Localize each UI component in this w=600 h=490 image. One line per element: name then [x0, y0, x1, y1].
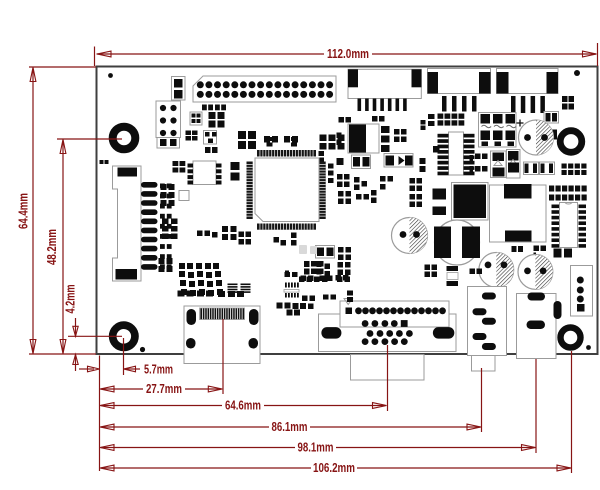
capacitor C8 (2x2) [394, 129, 400, 135]
svg-text:106.2mm: 106.2mm [313, 461, 355, 475]
resistor R27 [274, 237, 280, 243]
LVDS connector CN5 pins [141, 182, 158, 188]
capacitor C14 [159, 258, 165, 264]
pad cluster B [354, 177, 360, 183]
capacitor C20 electrolytic [392, 218, 428, 254]
capacitor C6 [267, 137, 273, 141]
resistor R26 [428, 114, 435, 119]
AV jack CN8 [468, 287, 507, 356]
dimension 64.6mm [101, 405, 222, 407]
transistor Q1 [204, 131, 217, 145]
resistor pack RN1 (2x2 pads) [562, 96, 568, 102]
pad row H [322, 277, 328, 283]
svg-text:86.1mm: 86.1mm [272, 420, 308, 434]
svg-text:27.7mm: 27.7mm [146, 382, 182, 396]
fiducial dot top-right [574, 70, 580, 76]
IC U6 pads [304, 261, 310, 267]
jumper block JP1 [479, 113, 517, 148]
IC U5 [348, 124, 379, 153]
resistor R20 [337, 158, 344, 165]
capacitor C10 [239, 232, 245, 238]
resistor R11 [215, 105, 220, 111]
resistor R17 [372, 116, 378, 122]
capacitor C15 electrolytic [519, 120, 554, 155]
capacitor C18 [433, 189, 447, 200]
pad pair P [512, 246, 517, 252]
capacitor C17 [540, 162, 555, 175]
dimension 48.2mm [57, 138, 122, 140]
IC U7 SOIC-14 [449, 132, 464, 175]
diode D2 [491, 151, 507, 178]
svg-text:4.2mm: 4.2mm [64, 285, 78, 314]
pad J [287, 310, 293, 316]
pin header J1 2x16 [193, 76, 336, 102]
pad pair N [475, 154, 481, 160]
dimension 64.4mm [29, 66, 96, 68]
resistor array R18 [381, 126, 390, 133]
resistor R23 [420, 158, 426, 164]
inductor L1 [435, 220, 480, 265]
pad column right of U1 [328, 164, 334, 169]
pad pair O [470, 155, 474, 163]
U1 top pins [257, 150, 316, 157]
capacitor C11 [316, 246, 335, 259]
connector CN4 [497, 69, 559, 94]
extension line hole BL [123, 338, 125, 375]
pad quad R [554, 249, 562, 258]
U1 right pins [320, 162, 326, 220]
audio jack CN9 [517, 294, 557, 359]
extension line audio [535, 359, 537, 453]
watermark [299, 245, 317, 254]
resistor group R22 [410, 194, 416, 200]
mounting hole bottom-left [113, 325, 135, 347]
resistor R10 [202, 105, 207, 111]
pad pair V1 [302, 296, 308, 302]
pin header J2 2x3 [156, 101, 181, 138]
resistor group R15 [161, 184, 167, 190]
capacitor C9 (2x2) [352, 155, 371, 169]
extension line AV [481, 368, 483, 432]
svg-text:64.4mm: 64.4mm [17, 193, 31, 229]
extension line power [571, 351, 573, 473]
capacitor C19 [433, 207, 447, 216]
component U3 (2x2 checker) [209, 112, 216, 119]
dimension 86.1mm [101, 426, 269, 428]
IC U9 power [452, 183, 489, 221]
U1 bottom pins [257, 224, 316, 230]
pad cluster E [380, 176, 386, 182]
resistor pack RN2 [562, 164, 567, 169]
capacitor C22 electrolytic [518, 255, 553, 290]
resistor group R33 [162, 219, 169, 225]
regulator U10 [490, 185, 547, 242]
component T1 [447, 266, 459, 271]
PCB board outline [97, 67, 598, 355]
fiducial dot near bottom-right hole [586, 345, 591, 350]
HDMI connector CN6 [184, 306, 260, 364]
plus mark [517, 120, 524, 127]
pad cluster D [356, 194, 362, 200]
pad pair T2 [470, 269, 476, 275]
op-amp U4 SOIC-8 [193, 161, 216, 185]
pad col U [100, 160, 104, 164]
pad quad Q [534, 246, 540, 252]
capacitor C1 (vertical 2-pad) [172, 77, 186, 101]
pad row above HDMI [178, 291, 185, 297]
pad matrix cluster [179, 263, 185, 269]
silk triangle [344, 299, 353, 305]
capacitor cluster C4 [320, 135, 327, 142]
pad row L [285, 272, 291, 277]
IC U6 [304, 261, 322, 267]
svg-text:5.7mm: 5.7mm [144, 362, 173, 376]
svg-text:98.1mm: 98.1mm [298, 441, 334, 455]
striped component S2 [285, 283, 287, 288]
extension line HDMI [222, 319, 224, 394]
main IC U1 QFP body [255, 158, 319, 222]
capacitor C16 [524, 162, 539, 175]
pad P1 [179, 191, 189, 201]
component U2 (4-pad) [190, 112, 202, 125]
dimension 112.0mm [94, 47, 96, 67]
resistor column R1-R9 [160, 184, 165, 189]
connector CN2 [348, 69, 421, 98]
resistor row R30 [438, 114, 444, 119]
resistor R16 [339, 117, 345, 123]
connector CN10 [571, 266, 593, 317]
capacitor C23 [173, 161, 179, 166]
svg-text:64.6mm: 64.6mm [225, 399, 261, 413]
pad cluster C [338, 191, 344, 197]
resistor R13 [264, 136, 270, 143]
pad row R34 [197, 231, 203, 237]
svg-text:112.0mm: 112.0mm [327, 47, 369, 61]
capacitor C3 (2x2 big) [238, 131, 246, 139]
mounting hole bottom-right [561, 328, 581, 348]
connector CN3 [428, 69, 491, 94]
dimension 98.1mm [101, 447, 295, 449]
dimension 27.7mm [101, 388, 143, 390]
pad V3 [347, 291, 353, 296]
dimension 106.2mm [101, 467, 311, 469]
diode D1 [384, 154, 413, 168]
pad row G [299, 277, 305, 283]
dimension 5.7mm [79, 368, 94, 370]
U1 left pins [247, 162, 253, 220]
IC U8 SOIC-16 [560, 203, 578, 248]
pad cluster A [337, 174, 343, 180]
resistor pack RN3 [549, 186, 554, 192]
mounting hole top-left [113, 127, 136, 150]
VGA shell below board [351, 355, 425, 381]
pad group R35 [222, 226, 228, 232]
resistor R12 [205, 147, 211, 153]
capacitor C12 [338, 247, 344, 253]
resistor R32 [545, 130, 551, 140]
capacitor C7 [291, 137, 297, 141]
pad pair S [425, 265, 431, 271]
resistor R24 [433, 146, 440, 153]
mounting hole top-right [560, 131, 582, 153]
VGA connector CN7 [319, 314, 457, 352]
resistor R19 [337, 133, 342, 139]
svg-text:48.2mm: 48.2mm [45, 229, 59, 265]
resistor R28 [291, 233, 297, 239]
fiducial dot near bottom-left hole [140, 347, 145, 352]
resistor R25 [544, 112, 559, 124]
resistor group R21 [410, 178, 416, 184]
capacitor C21 electrolytic [479, 253, 514, 288]
LVDS connector CN5 [113, 166, 142, 281]
pad row M [320, 276, 326, 282]
capacitor C2 (2x2) [186, 131, 192, 136]
pad quad V2 [301, 304, 307, 310]
extension line VGA [387, 345, 389, 411]
striped pads S1 [228, 284, 238, 286]
pad cluster F [338, 262, 344, 268]
diode D3 [507, 150, 521, 179]
pad row I [277, 303, 283, 309]
fiducial dot top-left [108, 73, 113, 78]
resistor R14 [284, 136, 290, 143]
pad K [323, 295, 329, 300]
resistor R31 [463, 228, 469, 234]
dimension 4.2mm [68, 335, 122, 337]
capacitor C5 (2x2) [231, 162, 240, 170]
capacitor C13 [325, 264, 331, 270]
extension line left [99, 356, 101, 472]
